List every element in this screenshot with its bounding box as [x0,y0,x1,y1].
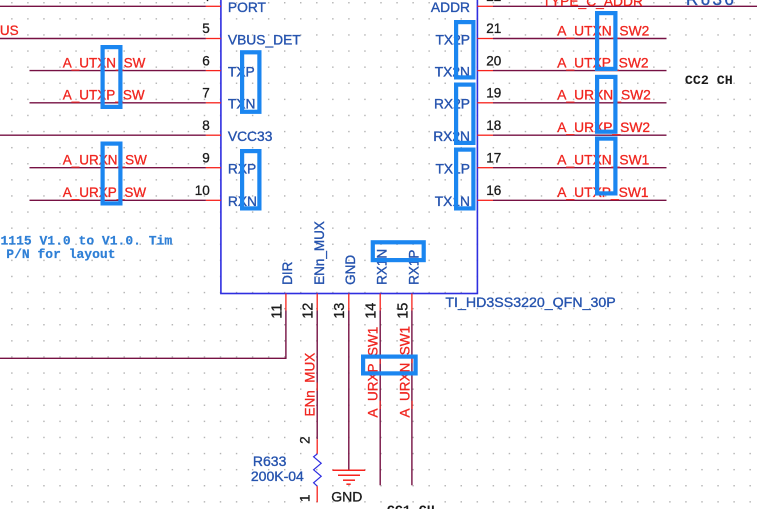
svg-text:TYPE_C_ADDR: TYPE_C_ADDR [543,0,643,9]
svg-text:GND: GND [331,489,362,505]
wire net VBUS pin4 row [0,5,206,7]
highlight box net labels A_UTXN_SW/A_UTXP_SW [103,47,121,107]
pin 22 stub [477,5,493,7]
svg-text:200K-04: 200K-04 [251,468,304,484]
pin 9 stub [206,167,221,169]
svg-text:TI_HD3SS3220_QFN_30P: TI_HD3SS3220_QFN_30P [445,295,615,311]
wire net A_UTXP_SW [30,102,206,104]
wire net A_UTXN_SW [30,70,206,72]
svg-text:20: 20 [486,53,501,68]
wire net A_URXP_SW1 [379,311,381,486]
svg-text:R636: R636 [686,0,736,9]
highlight box pin names RX2P/RX2N [456,85,473,143]
wire DIR horizontal segment [0,357,287,359]
pin 19 stub [477,102,493,104]
svg-text:11: 11 [269,304,285,319]
highlight box net labels A_UTXN_SW2/A_UTXP_SW2 [597,13,615,69]
wire net A_URXN_SW [30,167,206,169]
svg-text:16: 16 [486,183,501,198]
svg-text:4: 4 [202,0,210,4]
pin 17 stub [477,167,493,169]
highlight box pin names TX2P/TX2N [456,22,473,77]
wire net A_UTXP_SW1 [493,199,667,201]
svg-text:21: 21 [486,21,501,36]
pin 16 stub [477,199,493,201]
wire pin8 row VCC33 [0,134,206,136]
svg-text:8: 8 [202,118,210,133]
highlight box pin names RXP/RXN [242,151,259,208]
pin 18 stub [477,134,493,136]
wire net A_URXP_SW [30,199,206,201]
svg-text:6: 6 [202,53,210,68]
resistor R633 pin 2 stub [316,439,318,454]
svg-text:19: 19 [486,86,501,101]
svg-text:PORT: PORT [228,0,267,15]
ground symbol [333,470,366,484]
svg-text:RX1N: RX1N [375,249,390,285]
pin 6 stub [206,70,221,72]
wire net A_UTXN_SW1 [493,167,667,169]
svg-text:10: 10 [195,183,210,198]
svg-text:18: 18 [486,118,501,133]
svg-text:TX1P: TX1P [435,162,470,177]
wire net A_UTXN_SW2 [493,38,667,40]
svg-text:CC1 CH: CC1 CH [387,503,435,509]
svg-text:A_URXN_SW: A_URXN_SW [63,153,147,168]
highlight box net labels A_URXN_SW2/A_URXP_SW2 [597,77,615,132]
svg-text:15: 15 [395,303,411,319]
svg-text:ENn_MUX: ENn_MUX [303,353,318,417]
svg-text:TX2P: TX2P [435,32,470,47]
wire net A_UTXP_SW2 [493,70,667,72]
svg-text:P/N for layout: P/N for layout [6,247,115,262]
wire net TYPE_C_ADDR pin22 row [493,5,757,7]
wire net ENn_MUX [316,311,318,440]
pin 7 stub [206,102,221,104]
highlight box net labels A_URXN_SW/A_URXP_SW [103,144,121,204]
pin 10 stub [206,199,221,201]
svg-text:RX1P: RX1P [406,250,421,285]
wire net A_URXN_SW1 [411,311,413,486]
pin 15 stub [411,294,413,311]
pin 8 stub [206,134,221,136]
pin 20 stub [477,70,493,72]
wire net A_URXN_SW2 [493,102,667,104]
svg-text:A_UTXN_SW1: A_UTXN_SW1 [557,153,649,168]
wire GND net [348,311,350,471]
svg-text:R633: R633 [253,453,287,469]
svg-text:VBUS_DET: VBUS_DET [228,32,301,47]
svg-text:A_URXN_SW2: A_URXN_SW2 [557,88,651,103]
svg-text:VCC33: VCC33 [228,129,273,144]
pin 21 stub [477,38,493,40]
svg-text:ENn_MUX: ENn_MUX [312,221,327,285]
svg-text:13: 13 [332,303,348,319]
svg-text:2: 2 [298,436,313,444]
svg-text:ADDR: ADDR [431,0,470,15]
svg-text:1115 V1.0 to V1.0. Tim: 1115 V1.0 to V1.0. Tim [1,233,173,248]
svg-text:GND: GND [343,255,358,285]
highlight box net labels A_URXP_SW1/A_URXN_SW1 [363,357,416,374]
svg-text:9: 9 [202,150,210,165]
highlight box pin names TXP/TXN [242,52,259,112]
svg-text:12: 12 [301,303,317,319]
svg-text:CC2 CH: CC2 CH [685,73,733,88]
svg-text:DIR: DIR [280,261,295,285]
pin 13 stub [348,294,350,311]
pin 12 stub [316,294,318,311]
svg-text:5: 5 [202,21,210,36]
wire net VBUS pin5 row [0,38,206,40]
svg-text:RX2P: RX2P [434,97,470,112]
svg-text:1: 1 [298,494,313,502]
IC U1 TI_HD3SS3220 body outline [221,0,478,294]
pin 14 stub [379,294,381,311]
wire net A_URXP_SW2 [493,134,667,136]
pin 5 stub [206,38,221,40]
pin 11 stub [285,294,287,311]
highlight box pin names RX1N/RX1P [373,242,424,260]
highlight box pin names TX1P/TX1N [456,150,473,209]
svg-text:17: 17 [486,150,501,165]
pin 4 stub [206,5,221,7]
svg-text:14: 14 [364,303,380,319]
wire DIR vertical segment [285,311,287,359]
svg-text:22: 22 [486,0,501,4]
resistor R633 pin 1 stub [316,486,318,502]
svg-text:A_UTXN_SW2: A_UTXN_SW2 [557,23,649,38]
highlight box net labels A_UTXN_SW1/A_UTXP_SW1 [597,139,615,194]
svg-text:7: 7 [202,86,210,101]
svg-text:VBUS: VBUS [0,23,19,38]
resistor R633 zigzag body [314,454,322,486]
